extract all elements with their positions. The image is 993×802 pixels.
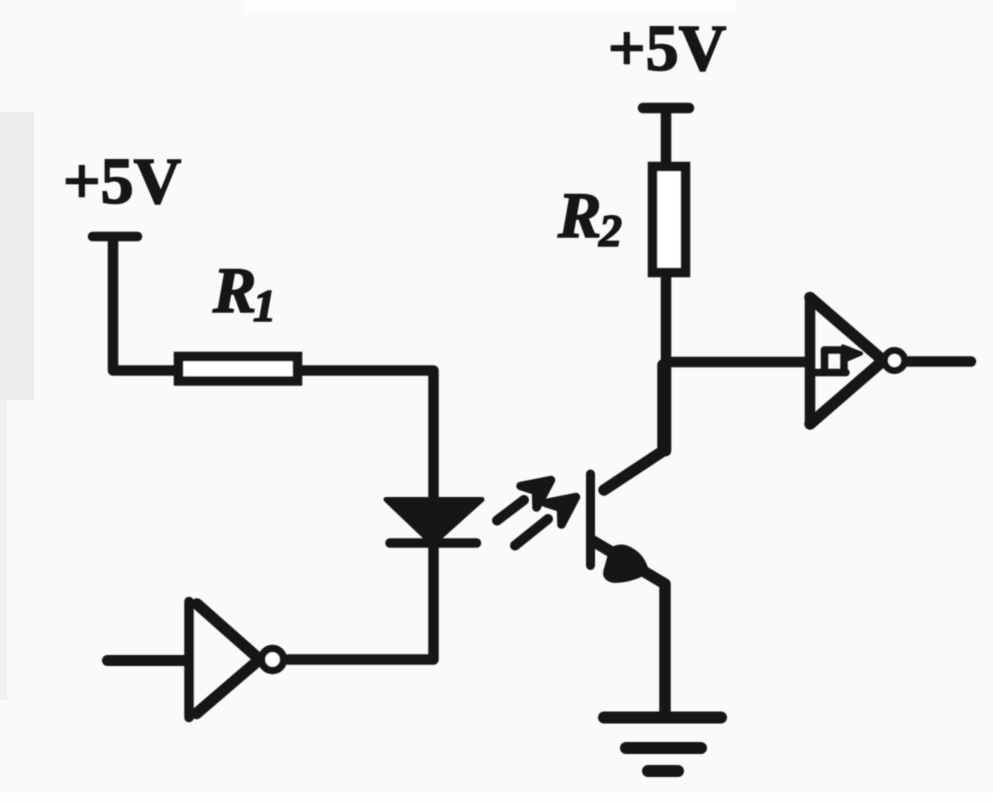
schmitt inverter U2 triangle [810,298,882,425]
hysteresis beak [843,347,861,361]
svg-text:2: 2 [598,205,622,256]
emitter arrowhead [606,547,646,580]
optocoupler light arrow (upper) [497,480,551,521]
svg-text:+5V: +5V [63,145,181,218]
output wire [908,356,971,367]
phototransistor collector wire (diag up to node) [604,365,663,490]
power rail symbol (right +5V bar) [643,103,689,114]
optocoupler light arrow (lower) [515,497,576,546]
inverter U1 output bubble [262,649,284,671]
schmitt hysteresis mark [809,350,848,373]
phototransistor emitter (diag with arrow, down to ground) [593,541,665,712]
inverter U1 input wire [108,655,189,666]
node wire to schmitt input [666,357,806,368]
resistor R2 (vertical box) [653,167,686,273]
LED cathode bar [390,538,477,548]
ground symbol [604,718,721,772]
phototransistor Q1 base bar [586,474,595,566]
wire: R2 down through node to collector corner [661,277,672,451]
svg-text:R: R [557,180,601,252]
svg-text:R: R [212,255,256,327]
svg-text:1: 1 [253,280,276,331]
svg-text:+5V: +5V [608,12,726,85]
wire: left supply stem down and over to R1 [113,237,178,371]
wire: R1 to LED anode (right then down) [303,371,434,499]
wire: LED cathode down to inverter output net [288,546,434,660]
resistor R1 (horizontal box) [179,357,298,382]
inverter U1 triangle [189,602,258,718]
LED D1 triangle (anode, pointing down) [386,500,482,545]
power rail symbol (left +5V bar) [93,232,138,242]
schmitt output bubble [885,351,905,371]
wire: right supply stem to R2 [661,109,672,165]
